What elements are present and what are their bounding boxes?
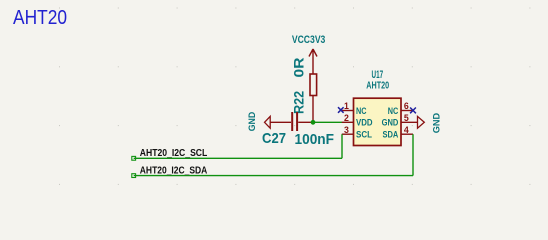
svg-text:6: 6: [404, 101, 409, 111]
svg-text:SCL: SCL: [356, 130, 372, 140]
svg-text:3: 3: [344, 125, 349, 135]
resistor R22: [310, 74, 317, 122]
svg-text:AHT20_I2C_SCL: AHT20_I2C_SCL: [140, 147, 208, 159]
unconnected end SDA: [132, 174, 136, 178]
op-amp U17 body: [354, 98, 402, 145]
svg-text:GND: GND: [431, 113, 442, 133]
wire VDD net: [313, 121, 342, 123]
svg-text:GND: GND: [247, 112, 257, 132]
capacitor C27: [270, 112, 313, 131]
svg-text:GND: GND: [382, 118, 399, 128]
svg-text:NC: NC: [388, 106, 399, 116]
ground left: [265, 116, 271, 128]
U17 pin 1 NC: [342, 110, 354, 112]
svg-text:AHT20: AHT20: [13, 6, 67, 29]
svg-text:VCC3V3: VCC3V3: [292, 34, 326, 46]
wire SCL vertical: [341, 134, 343, 158]
no-connect X pin 6: [410, 108, 416, 114]
U17 pin 5 GND: [401, 121, 418, 123]
unconnected end SCL: [132, 156, 136, 160]
U17 pin 6 NC: [401, 110, 413, 112]
U17 pin 4 SDA: [401, 133, 413, 135]
junction node VDD: [311, 120, 316, 125]
U17 pin 3 SCL: [342, 133, 354, 135]
wire SCL horizontal: [134, 157, 342, 159]
svg-text:4: 4: [404, 125, 409, 135]
power VCC3V3: [309, 49, 317, 74]
svg-text:AHT20: AHT20: [366, 80, 389, 92]
svg-text:1: 1: [344, 101, 349, 111]
svg-text:SDA: SDA: [383, 130, 399, 140]
svg-text:C27: C27: [262, 130, 286, 147]
ground right: [418, 116, 425, 128]
svg-text:0R: 0R: [290, 58, 306, 78]
svg-text:AHT20_I2C_SDA: AHT20_I2C_SDA: [140, 165, 208, 177]
svg-text:R22: R22: [290, 91, 306, 114]
svg-text:NC: NC: [356, 106, 367, 116]
wire SDA horizontal: [134, 175, 413, 177]
svg-text:2: 2: [344, 113, 349, 123]
svg-text:100nF: 100nF: [295, 131, 335, 148]
svg-text:VDD: VDD: [356, 118, 373, 128]
wire SDA vertical: [412, 134, 414, 175]
no-connect X pin 1: [338, 107, 344, 113]
svg-text:5: 5: [404, 113, 409, 123]
U17 pin 2 VDD: [342, 121, 354, 123]
